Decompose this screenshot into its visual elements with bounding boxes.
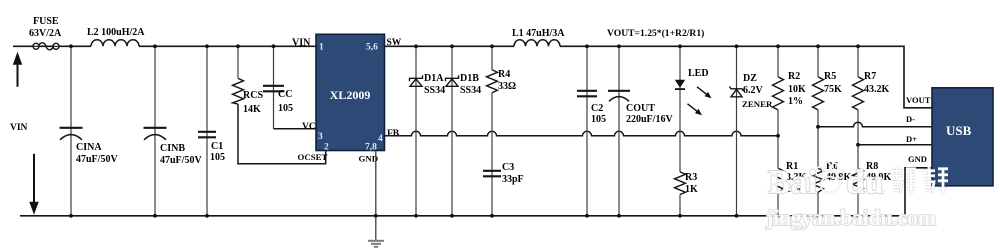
svg-text:10K: 10K [788, 84, 806, 95]
wire CC vertical [273, 46, 275, 129]
svg-text:ZENER: ZENER [742, 99, 773, 109]
fuse FUSE 63V/2A [33, 43, 59, 50]
wire GND pin stub [375, 151, 377, 240]
svg-text:VC: VC [302, 122, 316, 132]
wire FB line with hops [385, 131, 779, 136]
wire D1B vertical [451, 46, 453, 216]
wire VC line [274, 128, 317, 130]
junction dot D- divider [816, 125, 820, 129]
resistor RCS 14K [237, 46, 239, 78]
svg-text:105: 105 [591, 114, 606, 125]
USB connector J1 [932, 88, 993, 186]
net VOUT formula label [607, 28, 704, 39]
wire RCS to OCSET [238, 104, 326, 164]
LED label [688, 68, 709, 79]
resistor R7 43.2K [853, 77, 864, 110]
wire D+ line [858, 144, 932, 146]
junction dot FB R2 R1 [776, 134, 780, 138]
wire R2 R1 column [777, 46, 779, 216]
svg-text:1%: 1% [788, 96, 803, 107]
resistor R3 label [685, 172, 698, 195]
svg-text:VOUT=1.25*(1+R2/R1): VOUT=1.25*(1+R2/R1) [607, 28, 704, 39]
wire C1 vertical [206, 46, 208, 216]
svg-text:COUT: COUT [626, 103, 655, 114]
svg-text:OCSET: OCSET [298, 152, 328, 162]
inductor L2 label [87, 27, 145, 38]
svg-text:R2: R2 [788, 71, 800, 82]
svg-text:5,6: 5,6 [366, 42, 378, 52]
resistor R5 label [824, 71, 842, 95]
svg-text:1K: 1K [685, 184, 698, 195]
wire D1A vertical [415, 46, 417, 216]
resistor R5 75K [813, 77, 824, 110]
svg-text:CC: CC [278, 89, 292, 100]
resistor R3 1K [675, 172, 686, 195]
svg-text:2: 2 [324, 142, 329, 152]
resistor R2 10K 1% [773, 77, 784, 110]
svg-text:XL2009: XL2009 [330, 88, 371, 102]
svg-text:220uF/16V: 220uF/16V [626, 114, 673, 125]
pin 2 OCSET [298, 142, 330, 162]
svg-text:L1 47uH/3A: L1 47uH/3A [512, 28, 565, 39]
svg-text:75K: 75K [824, 84, 842, 95]
wire D- line [818, 122, 932, 127]
capacitor CC label [278, 89, 293, 114]
svg-text:GND: GND [908, 154, 927, 164]
resistor R8 49.9K [853, 168, 864, 192]
wire CINA vertical [70, 46, 72, 216]
svg-text:SS34: SS34 [460, 85, 481, 96]
svg-text:D1B: D1B [460, 73, 479, 84]
capacitor C3 label [502, 162, 524, 185]
resistor R4 label [498, 69, 516, 92]
svg-text:47uF/50V: 47uF/50V [76, 154, 118, 165]
svg-text:R5: R5 [824, 71, 836, 82]
pin 1 VIN [292, 37, 324, 52]
LED indicator [675, 80, 685, 89]
ground symbol [368, 241, 384, 247]
pin 5,6 SW [366, 38, 402, 53]
junction dots bottom rail [69, 214, 860, 218]
inductor L1 47uH/3A [514, 40, 560, 46]
svg-text:C3: C3 [502, 162, 514, 173]
svg-text:VIN: VIN [10, 123, 28, 133]
wire top rail VIN segment [13, 46, 932, 108]
capacitor C1 label [210, 141, 225, 163]
svg-text:105: 105 [278, 103, 293, 114]
svg-text:D-: D- [906, 114, 915, 124]
svg-text:SW: SW [387, 38, 402, 48]
capacitor CINB 47uF/50V [144, 128, 167, 140]
pin 7,8 GND [359, 142, 379, 163]
zener diode DZ 6.2V [730, 87, 744, 97]
node VIN label [10, 123, 28, 133]
capacitor CC 105 [263, 86, 284, 92]
resistor R1 label [786, 161, 807, 195]
wire zener vertical [736, 46, 738, 216]
resistor R8 label [866, 161, 892, 183]
capacitor CINA label [76, 142, 118, 165]
wire CINB vertical [154, 46, 156, 216]
wire R5 R6 column [817, 46, 819, 216]
svg-text:jingyan.baidu.com: jingyan.baidu.com [765, 205, 936, 230]
wire bottom ground rail [20, 168, 932, 216]
svg-text:USB: USB [946, 123, 972, 138]
svg-text:GND: GND [359, 153, 379, 163]
junction dot D+ divider [856, 143, 860, 147]
svg-text:14K: 14K [243, 104, 261, 115]
inductor L2 100uH/2A [91, 40, 139, 46]
svg-text:R7: R7 [864, 71, 876, 82]
svg-text:43.2K: 43.2K [864, 84, 890, 95]
svg-text:FB: FB [387, 129, 400, 139]
wire LED R3 vertical [679, 46, 681, 216]
node VIN arrow down [29, 154, 38, 215]
LED arrows [688, 87, 712, 116]
resistor R2 label [788, 71, 806, 107]
USB pin D- label [906, 114, 915, 124]
svg-text:33Ω: 33Ω [498, 81, 516, 92]
svg-text:CINA: CINA [76, 142, 102, 153]
capacitor C2 label [591, 103, 606, 125]
svg-text:63V/2A: 63V/2A [29, 28, 62, 39]
wire R4 C3 vertical [491, 46, 493, 216]
pin 4 FB [378, 129, 400, 144]
svg-text:FUSE: FUSE [33, 16, 59, 27]
USB pin GND label [908, 154, 927, 164]
svg-text:du: du [846, 164, 884, 201]
svg-text:D+: D+ [906, 134, 917, 144]
node VIN arrow up [13, 52, 22, 87]
capacitor C1 105 [198, 132, 216, 138]
resistor R4 33ohm [487, 70, 498, 93]
svg-text:3: 3 [318, 132, 323, 142]
svg-text:D1A: D1A [424, 73, 444, 84]
resistor RCS label [243, 90, 263, 115]
capacitor C3 33pF [483, 171, 501, 177]
svg-text:105: 105 [210, 152, 225, 163]
svg-text:VIN: VIN [292, 37, 311, 48]
capacitor CINB label [160, 143, 202, 166]
junction dots top rail [69, 44, 860, 48]
svg-text:LED: LED [688, 68, 709, 79]
pin 3 VC [302, 122, 323, 142]
USB pin VOUT label [906, 95, 931, 105]
wire COUT vertical [618, 46, 620, 216]
resistor R6 label [826, 161, 852, 183]
resistor R7 label [864, 71, 890, 95]
zener DZ label [742, 73, 773, 109]
svg-text:RCS: RCS [243, 90, 263, 101]
diode D1A label [424, 73, 445, 96]
resistor R6 49.9K [813, 168, 824, 192]
svg-text:4: 4 [378, 134, 383, 144]
wire R7 R8 column [857, 46, 859, 216]
capacitor COUT 220uF/16V [608, 91, 630, 102]
capacitor CINA 47uF/50V [60, 128, 83, 140]
inductor L1 label [512, 28, 565, 39]
diode D1A SS34 [410, 75, 423, 86]
svg-text:VOUT: VOUT [906, 95, 931, 105]
svg-text:SS34: SS34 [424, 85, 445, 96]
svg-text:6.2V: 6.2V [743, 85, 764, 96]
svg-text:R3: R3 [685, 172, 697, 183]
diode D1B SS34 [446, 75, 459, 86]
wire C2 vertical [586, 46, 588, 216]
svg-text:R4: R4 [498, 69, 510, 80]
svg-text:CINB: CINB [160, 143, 185, 154]
watermark baidu jingyan [765, 162, 948, 230]
svg-text:Bai: Bai [768, 164, 817, 201]
svg-text:33pF: 33pF [502, 174, 524, 185]
capacitor C2 105 [577, 91, 597, 97]
capacitor COUT label [626, 103, 673, 125]
USB pin D+ label [906, 134, 917, 144]
svg-text:L2 100uH/2A: L2 100uH/2A [87, 27, 145, 38]
resistor R1 3.3K 1% [773, 168, 784, 192]
IC U1 XL2009 buck regulator [316, 34, 385, 150]
svg-text:47uF/50V: 47uF/50V [160, 155, 202, 166]
svg-text:C1: C1 [211, 141, 223, 152]
fuse label [29, 16, 62, 39]
svg-text:1: 1 [319, 42, 324, 52]
svg-text:C2: C2 [591, 103, 603, 114]
diode D1B label [460, 73, 481, 96]
svg-text:DZ: DZ [743, 73, 757, 84]
